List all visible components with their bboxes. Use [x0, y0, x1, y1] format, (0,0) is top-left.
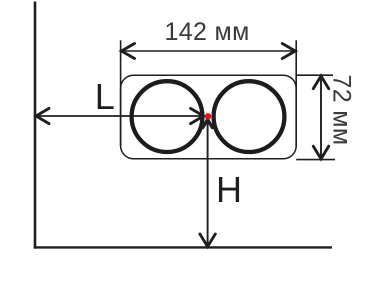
wire: right extension line for 142mm dimension: [295, 40, 297, 147]
node: top arrowhead of H dimension: [203, 120, 213, 128]
node: right circle: [214, 81, 285, 152]
wire: bottom extension line for 72mm dimension: [296, 159, 335, 161]
node: red center dot: [205, 113, 212, 120]
node: left arrowhead of 142mm dimension: [122, 44, 135, 59]
node: bottom arrowhead of 72mm dimension: [313, 146, 328, 159]
node: bottom arrowhead of H dimension: [200, 234, 215, 247]
wire: bottom horizontal axis line: [34, 246, 332, 248]
wire: left extension line for 142mm dimension: [120, 40, 122, 146]
node: right arrowhead of 142mm dimension: [282, 44, 295, 59]
node: left circle: [132, 81, 203, 152]
wire: 72mm dimension line: [320, 76, 322, 159]
wire: left vertical axis line: [34, 2, 37, 249]
wire: 142mm dimension line: [122, 50, 296, 52]
svg-text:72 мм: 72 мм: [328, 75, 356, 146]
node: left arrowhead of L dimension: [36, 108, 49, 123]
node: rounded rectangle housing: [121, 75, 297, 159]
node: top arrowhead of 72mm dimension: [313, 76, 328, 89]
wire: top extension line for 72mm dimension: [296, 74, 333, 76]
svg-text:L: L: [95, 76, 115, 117]
svg-text:142 мм: 142 мм: [165, 18, 250, 46]
wire: H dimension line: [207, 120, 209, 247]
wire: L dimension line: [36, 115, 204, 117]
svg-text:H: H: [216, 169, 242, 210]
node: right arrowhead of L dimension: [191, 108, 204, 123]
